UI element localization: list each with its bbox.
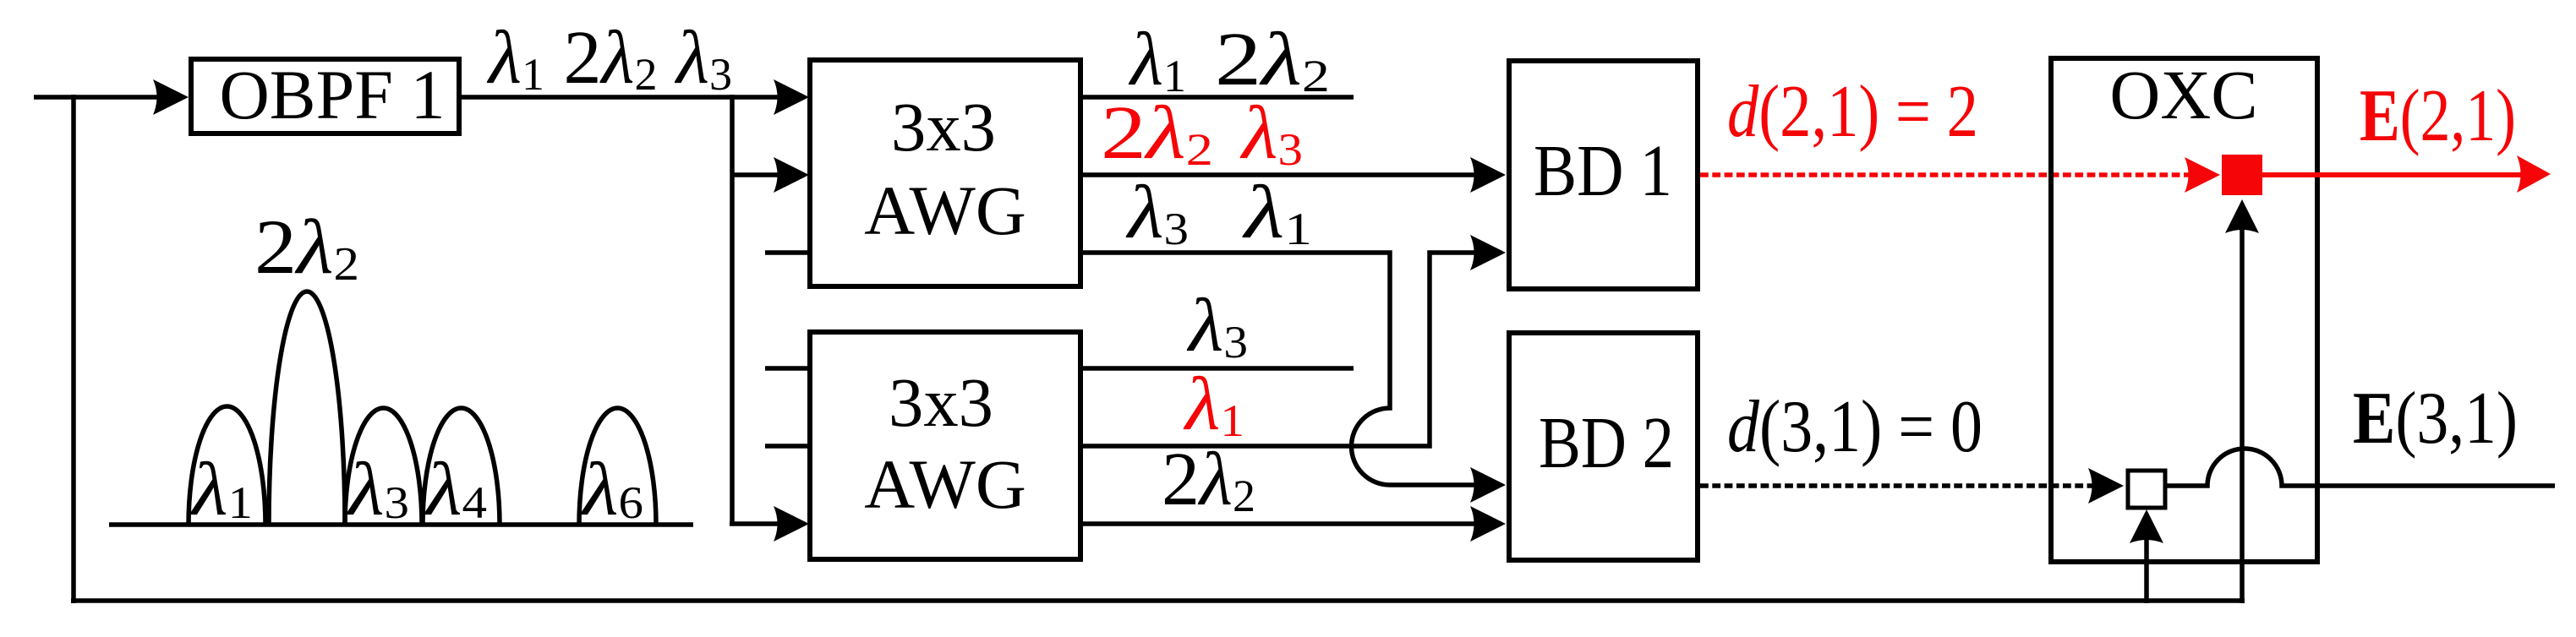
svg-text:E(3,1): E(3,1): [2353, 378, 2518, 460]
wire red solid E(2,1): [2262, 172, 2521, 177]
wire AWG2 out1: [1082, 366, 1354, 371]
spectrum peak λ4: [423, 408, 500, 525]
arrowhead into AWG1 in2: [774, 157, 809, 193]
red crosspoint square: [2222, 155, 2262, 195]
wire AWG1 out1: [1082, 95, 1354, 100]
wire AWG1 in2: [732, 172, 778, 177]
wire AWG2 out2 up to BD1: [1082, 253, 1475, 446]
svg-text:AWG: AWG: [864, 171, 1026, 249]
spectrum peak λ3: [345, 408, 422, 525]
svg-text:3x3: 3x3: [891, 88, 996, 166]
spectrum baseline: [109, 522, 693, 527]
svg-text:BD 2: BD 2: [1539, 401, 1674, 483]
arrowhead into BD2 in2: [1470, 506, 1506, 542]
arrowhead into BD1 in2: [1470, 235, 1506, 270]
svg-text:3x3: 3x3: [889, 363, 993, 441]
wire E(3,1) with hop: [2165, 449, 2555, 486]
svg-text:OXC: OXC: [2109, 56, 2257, 133]
wire AWG1 in3 stub: [765, 250, 809, 255]
wire AWG2 in2 stub: [765, 444, 809, 449]
arrowhead into AWG2 in3: [774, 506, 809, 542]
red arrowhead E(2,1): [2517, 155, 2551, 193]
arrowhead into small square: [2088, 468, 2124, 504]
spectrum peak 2λ2: [269, 291, 345, 525]
wire feedback riser to OXC: [2240, 230, 2245, 603]
svg-text:d(2,1) = 2: d(2,1) = 2: [1727, 71, 1978, 153]
wire AWG2 in1 stub: [765, 366, 809, 371]
wire OBPF to AWG1: [462, 95, 778, 100]
wire feedback bottom: [71, 598, 2245, 603]
spectrum peak λ6: [579, 408, 656, 525]
crosspoint small square open: [2128, 471, 2165, 508]
spectrum peak λ1: [189, 406, 265, 525]
arrowhead into BD1 in1: [1470, 157, 1506, 193]
svg-text:AWG: AWG: [864, 445, 1026, 523]
wire branch riser to small square: [2144, 540, 2149, 603]
arrowhead into OBPF 1: [153, 79, 189, 115]
arrowhead up below small square: [2130, 509, 2163, 543]
wire input line: [34, 95, 161, 100]
svg-text:OBPF 1: OBPF 1: [220, 56, 446, 133]
block AWG2 3x3: [810, 332, 1080, 559]
wire red dashed BD1 to OXC: [1700, 172, 2198, 177]
block AWG1 3x3: [810, 60, 1080, 286]
wire AWG2 in3: [730, 521, 778, 526]
block BD 1: [1509, 61, 1698, 289]
red arrowhead into red square: [2185, 157, 2220, 193]
wire AWG1 out3 hook to BD2: [1082, 253, 1475, 485]
arrowhead into AWG1 in1: [774, 79, 809, 115]
svg-text:BD 1: BD 1: [1534, 129, 1672, 211]
svg-text:d(3,1) = 0: d(3,1) = 0: [1727, 386, 1983, 468]
wire feedback vertical left: [71, 95, 76, 603]
wire AWG2 out3 to BD2: [1082, 521, 1475, 526]
wire AWG1 out2 to BD1: [1082, 172, 1475, 177]
block BD 2: [1509, 333, 1698, 560]
wire distributor vertical: [730, 95, 735, 524]
svg-text:E(2,1): E(2,1): [2360, 75, 2516, 157]
arrowhead into BD2 in1: [1470, 467, 1506, 503]
block OXC: [2051, 58, 2317, 562]
block OBPF 1: [191, 59, 459, 133]
wire black dashed BD2 to square: [1700, 483, 2103, 488]
arrowhead up below red square: [2225, 199, 2259, 233]
